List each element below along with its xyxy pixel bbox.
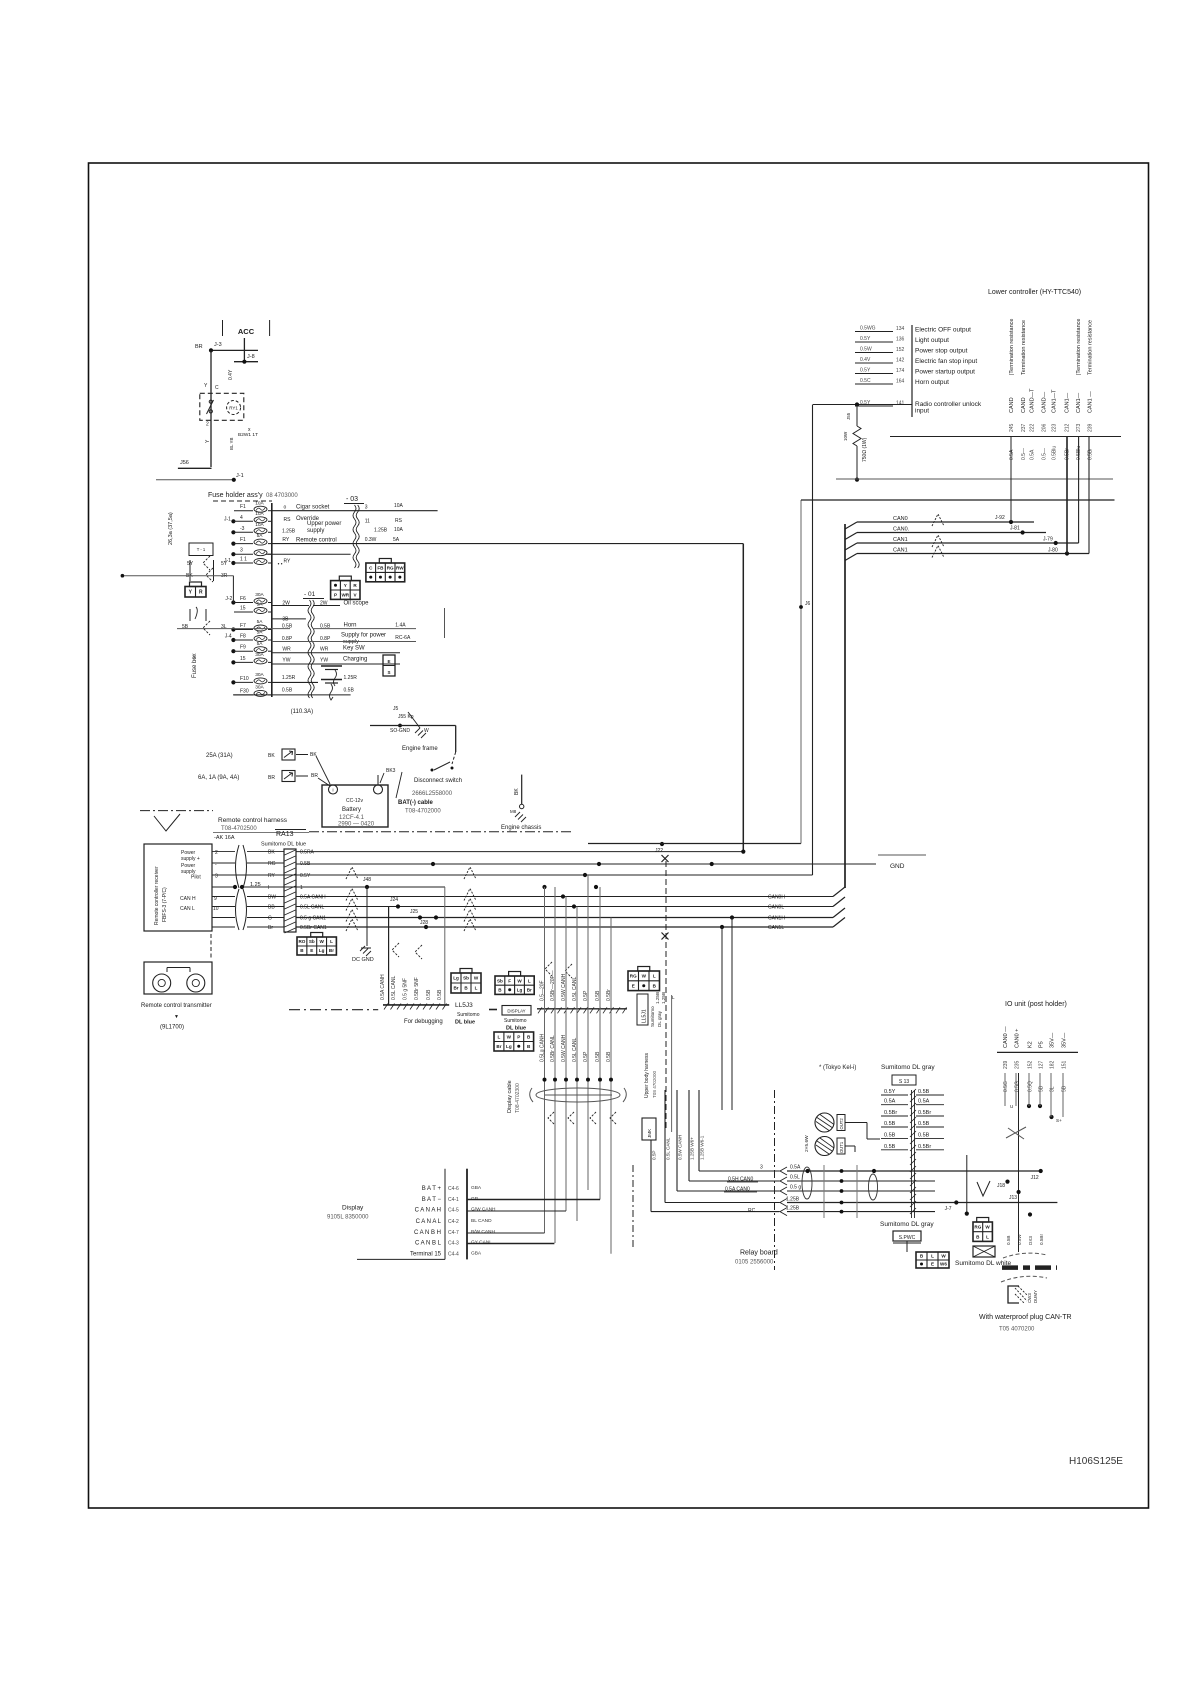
svg-text:RY: RY bbox=[268, 873, 276, 879]
svg-text:Br: Br bbox=[527, 988, 532, 993]
svg-text:M8: M8 bbox=[510, 809, 517, 814]
svg-text:J-79: J-79 bbox=[1043, 537, 1053, 543]
svg-text:Br: Br bbox=[329, 948, 334, 953]
svg-text:W6: W6 bbox=[940, 1262, 947, 1267]
svg-text:CAND: CAND bbox=[1021, 397, 1027, 413]
svg-text:0.5Br: 0.5Br bbox=[1088, 448, 1094, 460]
svg-text:CAN0L: CAN0L bbox=[768, 905, 784, 911]
svg-text:0.5B: 0.5B bbox=[344, 688, 355, 694]
svg-text:2: 2 bbox=[206, 422, 209, 428]
svg-text:P5: P5 bbox=[1039, 1041, 1045, 1048]
svg-text:Engine frame: Engine frame bbox=[402, 746, 438, 752]
svg-text:C4-3: C4-3 bbox=[448, 1241, 459, 1247]
svg-text:Light output: Light output bbox=[915, 337, 949, 344]
svg-text:P: P bbox=[517, 1034, 520, 1039]
svg-text:25A (31A): 25A (31A) bbox=[206, 753, 233, 759]
svg-text:10W: 10W bbox=[843, 431, 848, 441]
svg-text:H106S125E: H106S125E bbox=[1069, 1456, 1123, 1467]
svg-text:J-92: J-92 bbox=[995, 515, 1005, 521]
svg-text:BAT(-) cable: BAT(-) cable bbox=[398, 800, 434, 806]
svg-text:Terminal 15: Terminal 15 bbox=[410, 1252, 442, 1258]
svg-text:BK3: BK3 bbox=[386, 768, 396, 774]
svg-text:CAN0H: CAN0H bbox=[768, 895, 785, 901]
svg-text:supply +: supply + bbox=[181, 856, 200, 862]
svg-text:CAN1: CAN1 bbox=[893, 548, 908, 554]
svg-text:J-81: J-81 bbox=[1010, 526, 1020, 532]
svg-text:Sumitomo: Sumitomo bbox=[504, 1018, 527, 1024]
svg-text:J18: J18 bbox=[997, 1183, 1005, 1189]
svg-text:CAND: CAND bbox=[1009, 397, 1015, 413]
svg-text:L: L bbox=[528, 978, 531, 983]
svg-text:Remote control transmitter: Remote control transmitter bbox=[141, 1003, 212, 1009]
svg-text:0.5RA: 0.5RA bbox=[300, 850, 315, 856]
svg-text:182: 182 bbox=[1050, 1060, 1056, 1069]
svg-text:* (Tokyo Kel-i): * (Tokyo Kel-i) bbox=[819, 1065, 856, 1071]
svg-text:3: 3 bbox=[760, 1165, 763, 1171]
svg-text:127: 127 bbox=[1039, 1060, 1045, 1069]
svg-text:CAN1 —: CAN1 — bbox=[1088, 391, 1094, 413]
svg-text:Sb: Sb bbox=[309, 939, 315, 944]
svg-text:0.5Y: 0.5Y bbox=[860, 400, 871, 406]
svg-text:OUT2: OUT2 bbox=[839, 1118, 844, 1130]
svg-text:1.25B W6+: 1.25B W6+ bbox=[690, 1137, 695, 1160]
svg-text:0.5B: 0.5B bbox=[918, 1133, 930, 1139]
svg-text:CAN1H: CAN1H bbox=[768, 916, 785, 922]
svg-text:T08-4702300: T08-4702300 bbox=[515, 1083, 521, 1113]
svg-text:0.5B: 0.5B bbox=[426, 989, 432, 1000]
svg-text:S.PWC: S.PWC bbox=[899, 1235, 916, 1241]
svg-text:F6: F6 bbox=[240, 596, 246, 602]
svg-text:0.5Lg CANH: 0.5Lg CANH bbox=[540, 1034, 546, 1062]
svg-text:F10: F10 bbox=[240, 676, 249, 682]
svg-text:CAND—: CAND— bbox=[1042, 391, 1048, 413]
svg-text:- 03: - 03 bbox=[346, 496, 358, 503]
svg-text:5B: 5B bbox=[1062, 1085, 1068, 1092]
svg-text:GBA: GBA bbox=[471, 1185, 482, 1191]
svg-text:1.25R: 1.25R bbox=[344, 675, 358, 681]
svg-text:0.5A: 0.5A bbox=[918, 1099, 930, 1105]
svg-text:-AK 16A: -AK 16A bbox=[214, 835, 235, 841]
svg-text:Lg: Lg bbox=[319, 948, 325, 953]
svg-text:E: E bbox=[387, 659, 390, 664]
svg-text:o: o bbox=[284, 505, 287, 511]
svg-text:0.5—: 0.5— bbox=[1021, 448, 1027, 460]
svg-text:3L: 3L bbox=[1050, 1086, 1056, 1092]
svg-text:I: I bbox=[268, 885, 269, 891]
svg-text:Br: Br bbox=[496, 1044, 501, 1049]
svg-text:3: 3 bbox=[365, 505, 368, 511]
svg-text:0.5L CANL: 0.5L CANL bbox=[391, 976, 397, 1000]
svg-text:0.5P: 0.5P bbox=[652, 1151, 657, 1160]
svg-text:J28: J28 bbox=[420, 920, 428, 926]
svg-text:FBFS-3 (7-P/C): FBFS-3 (7-P/C) bbox=[162, 887, 168, 922]
svg-text:151: 151 bbox=[1062, 1060, 1068, 1069]
svg-text:RW: RW bbox=[396, 565, 404, 570]
svg-text:1.25B: 1.25B bbox=[655, 992, 660, 1004]
svg-text:223: 223 bbox=[1052, 423, 1058, 432]
svg-text:0.5WG: 0.5WG bbox=[860, 326, 876, 332]
svg-text:Remote control: Remote control bbox=[296, 538, 337, 544]
svg-text:J56: J56 bbox=[180, 460, 189, 466]
svg-text:CAN1L: CAN1L bbox=[768, 925, 784, 931]
svg-text:0.5A: 0.5A bbox=[790, 1165, 801, 1171]
svg-text:Lower controller (HY-TTC540): Lower controller (HY-TTC540) bbox=[988, 289, 1081, 296]
svg-text:F8: F8 bbox=[240, 634, 246, 640]
svg-text:(110.3A): (110.3A) bbox=[291, 709, 314, 715]
svg-text:Sb: Sb bbox=[463, 976, 469, 981]
svg-text:3L: 3L bbox=[221, 624, 227, 630]
svg-text:Horn: Horn bbox=[344, 623, 357, 629]
svg-text:K2: K2 bbox=[1028, 1041, 1034, 1048]
svg-text:0.5Blu: 0.5Blu bbox=[1052, 446, 1058, 460]
svg-text:L: L bbox=[653, 974, 656, 979]
svg-text:142: 142 bbox=[896, 358, 905, 364]
svg-text:- 01: - 01 bbox=[304, 591, 316, 598]
svg-text:0.5Br CANL: 0.5Br CANL bbox=[550, 1035, 556, 1062]
svg-text:Sb: Sb bbox=[497, 978, 503, 983]
svg-text:3: 3 bbox=[215, 874, 218, 880]
svg-text:RA13: RA13 bbox=[276, 831, 294, 838]
svg-text:2666L2558000: 2666L2558000 bbox=[412, 791, 453, 797]
svg-text:C4-2: C4-2 bbox=[448, 1219, 459, 1225]
svg-text:Oil scope: Oil scope bbox=[344, 601, 370, 607]
svg-text:C4-4: C4-4 bbox=[448, 1252, 459, 1258]
svg-text:0.5Q: 0.5Q bbox=[1028, 1081, 1034, 1092]
svg-text:1.25B W6-1: 1.25B W6-1 bbox=[700, 1135, 705, 1160]
svg-text:RG: RG bbox=[387, 565, 394, 570]
svg-text:J22: J22 bbox=[655, 848, 663, 854]
svg-text:OUT1: OUT1 bbox=[839, 1141, 844, 1153]
svg-text:With waterproof plug CAN-TR: With waterproof plug CAN-TR bbox=[979, 1314, 1072, 1321]
svg-text:0.5C: 0.5C bbox=[860, 378, 871, 384]
svg-text:T08-4702000: T08-4702000 bbox=[405, 809, 441, 815]
svg-text:Upper body harness: Upper body harness bbox=[644, 1052, 650, 1098]
svg-text:CAN1—: CAN1— bbox=[1076, 392, 1082, 413]
svg-text:5B: 5B bbox=[182, 624, 189, 630]
svg-text:CAN0.: CAN0. bbox=[893, 527, 910, 533]
svg-text:2×5.6W: 2×5.6W bbox=[804, 1135, 810, 1152]
svg-text:10A: 10A bbox=[394, 527, 404, 533]
svg-text:BL YB: BL YB bbox=[229, 437, 234, 450]
svg-text:F1: F1 bbox=[240, 504, 246, 510]
svg-text:BK: BK bbox=[514, 788, 520, 795]
svg-text:• •: • • bbox=[278, 562, 283, 568]
svg-text:L: L bbox=[931, 1254, 934, 1259]
svg-text:1.25B: 1.25B bbox=[661, 992, 666, 1004]
svg-text:0.5W: 0.5W bbox=[860, 347, 872, 353]
svg-text:|Termination resistance: |Termination resistance bbox=[1009, 319, 1015, 375]
svg-text:222: 222 bbox=[1030, 423, 1036, 432]
svg-text:0.5P: 0.5P bbox=[583, 990, 589, 1001]
svg-text:Sumitomo DL gray: Sumitomo DL gray bbox=[881, 1064, 935, 1071]
svg-text:0.5Br: 0.5Br bbox=[918, 1110, 931, 1116]
svg-text:W: W bbox=[474, 976, 479, 981]
svg-text:0.5Br 5NF: 0.5Br 5NF bbox=[414, 977, 420, 1000]
svg-text:6A, 1A (9A, 4A): 6A, 1A (9A, 4A) bbox=[198, 775, 239, 781]
svg-text:Sumitomo: Sumitomo bbox=[650, 1006, 655, 1027]
svg-text:134: 134 bbox=[896, 326, 905, 332]
svg-text:2: 2 bbox=[215, 850, 218, 856]
svg-text:BL CAND: BL CAND bbox=[471, 1218, 492, 1224]
svg-text:0.5L CANL: 0.5L CANL bbox=[300, 905, 324, 911]
svg-text:Electric fan stop input: Electric fan stop input bbox=[915, 358, 977, 365]
svg-text:T08-4702500: T08-4702500 bbox=[221, 826, 257, 832]
svg-text:10A: 10A bbox=[255, 511, 264, 517]
svg-text:Termination resistance: Termination resistance bbox=[1021, 320, 1027, 375]
svg-text:Lg: Lg bbox=[506, 1044, 512, 1049]
svg-text:RY: RY bbox=[284, 559, 292, 565]
svg-text:3: 3 bbox=[240, 548, 243, 554]
svg-text:0.5Br: 0.5Br bbox=[1039, 1234, 1044, 1245]
svg-text:RY1: RY1 bbox=[229, 406, 238, 411]
svg-text:L: L bbox=[986, 1234, 989, 1239]
svg-text:CAN H: CAN H bbox=[180, 896, 196, 902]
svg-text:0.5B: 0.5B bbox=[884, 1133, 896, 1139]
svg-text:C A N B L: C A N B L bbox=[415, 1241, 442, 1247]
svg-text:DC GND: DC GND bbox=[352, 957, 374, 963]
svg-text:0.5L: 0.5L bbox=[790, 1175, 800, 1181]
svg-text:0.4Y: 0.4Y bbox=[228, 369, 234, 380]
svg-text:J5: J5 bbox=[393, 706, 399, 712]
svg-text:0.5B: 0.5B bbox=[595, 990, 601, 1001]
svg-text:0.5W CANH: 0.5W CANH bbox=[561, 1034, 567, 1062]
svg-text:152: 152 bbox=[896, 347, 905, 353]
svg-text:0.5B: 0.5B bbox=[595, 1051, 601, 1062]
svg-text:0.5A: 0.5A bbox=[884, 1099, 896, 1105]
svg-text:input: input bbox=[915, 408, 929, 415]
svg-text:W: W bbox=[941, 1254, 946, 1259]
svg-text:CAN0 +: CAN0 + bbox=[1015, 1029, 1021, 1048]
svg-text:S+: S+ bbox=[1056, 1118, 1062, 1123]
svg-text:DX3: DX3 bbox=[1028, 1236, 1033, 1245]
svg-text:Electric OFF output: Electric OFF output bbox=[915, 327, 971, 334]
svg-text:BR: BR bbox=[311, 773, 318, 779]
svg-text:35V—: 35V— bbox=[1050, 1032, 1056, 1048]
svg-text:JMK: JMK bbox=[647, 1128, 652, 1138]
svg-text:30A: 30A bbox=[255, 592, 264, 598]
svg-text:IO unit (post holder): IO unit (post holder) bbox=[1005, 1001, 1067, 1008]
svg-text:Power stop output: Power stop output bbox=[915, 348, 968, 355]
svg-text:LL5J1: LL5J1 bbox=[642, 1009, 648, 1023]
svg-text:J-1: J-1 bbox=[224, 516, 231, 522]
svg-text:15: 15 bbox=[240, 606, 246, 612]
svg-text:0.5B: 0.5B bbox=[918, 1121, 930, 1127]
svg-text:239: 239 bbox=[1088, 423, 1094, 432]
svg-text:5A: 5A bbox=[257, 641, 264, 647]
svg-text:CAN0 —: CAN0 — bbox=[1003, 1026, 1009, 1048]
svg-text:RS: RS bbox=[284, 517, 292, 523]
svg-text:Display cable: Display cable bbox=[507, 1080, 513, 1113]
svg-text:RG: RG bbox=[974, 1225, 981, 1230]
svg-text:YW: YW bbox=[320, 658, 328, 664]
svg-text:RS: RS bbox=[395, 518, 403, 524]
svg-text:▼: ▼ bbox=[174, 1014, 179, 1020]
svg-text:For debugging: For debugging bbox=[404, 1019, 443, 1025]
svg-text:L: L bbox=[330, 939, 333, 944]
svg-text:B/W CANH: B/W CANH bbox=[471, 1229, 496, 1235]
svg-text:0.5B: 0.5B bbox=[1006, 1236, 1011, 1245]
svg-text:GBA: GBA bbox=[471, 1251, 482, 1257]
svg-text:U: U bbox=[1010, 1104, 1013, 1109]
svg-text:5A: 5A bbox=[257, 533, 264, 539]
svg-text:J-1: J-1 bbox=[236, 473, 244, 479]
svg-text:Sumitomo DL blue: Sumitomo DL blue bbox=[261, 842, 306, 848]
svg-text:Upper power: Upper power bbox=[307, 521, 341, 527]
svg-text:W: W bbox=[424, 728, 429, 734]
svg-text:RC: RC bbox=[748, 1208, 756, 1214]
svg-text:0105 2556000: 0105 2556000 bbox=[735, 1260, 774, 1266]
svg-text:1.25R: 1.25R bbox=[282, 675, 296, 681]
svg-text:DL blue: DL blue bbox=[506, 1026, 526, 1032]
svg-text:0.5G: 0.5G bbox=[1015, 1081, 1021, 1092]
svg-text:Disconnect switch: Disconnect switch bbox=[414, 778, 462, 784]
svg-text:212: 212 bbox=[1065, 423, 1071, 432]
svg-text:C A N A H: C A N A H bbox=[415, 1208, 441, 1214]
svg-text:0.5 g CAN1: 0.5 g CAN1 bbox=[300, 916, 326, 922]
svg-text:750Ω (1W): 750Ω (1W) bbox=[862, 437, 868, 462]
svg-text:BR: BR bbox=[268, 775, 275, 781]
svg-text:Power startup output: Power startup output bbox=[915, 369, 975, 376]
svg-text:Relay board: Relay board bbox=[740, 1250, 778, 1257]
svg-text:5Y: 5Y bbox=[221, 561, 228, 567]
svg-text:CAN L: CAN L bbox=[180, 906, 195, 912]
svg-text:Display: Display bbox=[342, 1205, 364, 1212]
svg-text:SO-GND: SO-GND bbox=[390, 728, 410, 734]
svg-text:E: E bbox=[632, 983, 635, 988]
svg-text:RG: RG bbox=[630, 974, 637, 979]
svg-text:Sumitomo DL gray: Sumitomo DL gray bbox=[880, 1221, 934, 1228]
svg-text:0.5B: 0.5B bbox=[884, 1121, 896, 1127]
svg-text:GY CANL: GY CANL bbox=[471, 1240, 492, 1246]
svg-text:F: F bbox=[508, 978, 511, 983]
svg-text:0.5B: 0.5B bbox=[606, 1051, 612, 1062]
svg-text:Supply for power: Supply for power bbox=[341, 633, 386, 639]
svg-text:RG: RG bbox=[268, 861, 276, 867]
svg-text:10A: 10A bbox=[394, 503, 404, 509]
svg-text:T08 4702000: T08 4702000 bbox=[652, 1070, 657, 1098]
svg-text:0.5Br: 0.5Br bbox=[606, 989, 612, 1001]
svg-text:0.5A CANH: 0.5A CANH bbox=[300, 895, 326, 901]
svg-text:BK: BK bbox=[268, 850, 275, 856]
svg-text:5A: 5A bbox=[257, 619, 264, 625]
svg-text:1.25B: 1.25B bbox=[786, 1206, 800, 1212]
svg-text:Remote control harness: Remote control harness bbox=[218, 817, 288, 824]
svg-text:J-4: J-4 bbox=[225, 634, 232, 640]
svg-text:1.25B: 1.25B bbox=[282, 529, 296, 535]
svg-text:0.5—: 0.5— bbox=[1042, 448, 1048, 460]
svg-text:11: 11 bbox=[365, 519, 370, 525]
svg-text:1.4A: 1.4A bbox=[395, 623, 406, 629]
svg-text:3B: 3B bbox=[282, 617, 289, 623]
svg-text:CW3: CW3 bbox=[1027, 1293, 1032, 1303]
svg-text:Key SW: Key SW bbox=[343, 646, 365, 652]
svg-text:supply: supply bbox=[307, 528, 324, 534]
svg-text:206: 206 bbox=[1042, 423, 1048, 432]
svg-text:B A T −: B A T − bbox=[422, 1197, 442, 1203]
svg-text:J-7: J-7 bbox=[945, 1206, 952, 1212]
svg-text:J12: J12 bbox=[1031, 1175, 1039, 1181]
svg-text:J6: J6 bbox=[805, 601, 811, 607]
svg-text:B A T +: B A T + bbox=[422, 1186, 442, 1192]
svg-text:YW: YW bbox=[282, 658, 290, 664]
svg-text:0.5Y: 0.5Y bbox=[860, 368, 871, 374]
svg-text:Lg: Lg bbox=[517, 988, 523, 993]
svg-text:DL blue: DL blue bbox=[455, 1020, 475, 1026]
svg-text:0.5B: 0.5B bbox=[918, 1089, 930, 1095]
svg-text:0.5W CANH: 0.5W CANH bbox=[561, 973, 567, 1001]
svg-text:10A: 10A bbox=[255, 500, 264, 506]
svg-text:RC-6A: RC-6A bbox=[395, 635, 411, 641]
svg-text:0.5L CANL: 0.5L CANL bbox=[572, 977, 578, 1001]
svg-text:0.5A: 0.5A bbox=[1030, 449, 1036, 460]
svg-text:Charging: Charging bbox=[343, 657, 367, 663]
svg-text:Horn output: Horn output bbox=[915, 379, 949, 386]
svg-text:5A: 5A bbox=[257, 602, 264, 608]
svg-text:BB: BB bbox=[268, 905, 275, 911]
svg-text:G: G bbox=[268, 916, 272, 922]
svg-text:Pilot: Pilot bbox=[191, 875, 201, 881]
svg-text:0.5P: 0.5P bbox=[583, 1051, 589, 1062]
svg-text:ACC: ACC bbox=[238, 327, 255, 336]
svg-text:2990 — 0420: 2990 — 0420 bbox=[338, 822, 375, 828]
svg-text:Br: Br bbox=[453, 986, 458, 991]
svg-text:J25: J25 bbox=[410, 909, 418, 915]
svg-text:245: 245 bbox=[1009, 423, 1015, 432]
svg-text:Remote controller receiver: Remote controller receiver bbox=[154, 866, 160, 925]
svg-text:239: 239 bbox=[1003, 1060, 1009, 1069]
svg-text:(9L1700): (9L1700) bbox=[160, 1025, 184, 1031]
svg-text:0.5Y: 0.5Y bbox=[860, 336, 871, 342]
svg-text:C: C bbox=[215, 385, 219, 391]
svg-text:W: W bbox=[517, 978, 522, 983]
svg-text:10A: 10A bbox=[255, 522, 264, 528]
svg-text:15: 15 bbox=[240, 656, 246, 662]
svg-text:0.5W: 0.5W bbox=[1017, 1234, 1022, 1245]
svg-text:Termination resistance: Termination resistance bbox=[1088, 320, 1094, 375]
svg-text:BK: BK bbox=[268, 753, 275, 759]
svg-text:5A: 5A bbox=[393, 537, 400, 543]
svg-text:F30: F30 bbox=[240, 688, 249, 694]
svg-text:CAN1—T: CAN1—T bbox=[1052, 389, 1058, 413]
svg-text:0.5Y: 0.5Y bbox=[300, 873, 311, 879]
svg-text:0.5W CANH: 0.5W CANH bbox=[678, 1135, 683, 1160]
svg-text:T - 1: T - 1 bbox=[197, 547, 206, 552]
svg-text:30A: 30A bbox=[255, 672, 264, 678]
svg-text:0.5Y: 0.5Y bbox=[884, 1089, 896, 1095]
svg-text:P: P bbox=[334, 592, 337, 597]
svg-text:L: L bbox=[672, 995, 675, 1000]
svg-text:141: 141 bbox=[896, 401, 905, 407]
svg-text:0.5L CANL: 0.5L CANL bbox=[666, 1137, 671, 1160]
svg-text:4: 4 bbox=[240, 515, 243, 521]
svg-text:Y: Y bbox=[344, 583, 347, 588]
svg-text:1: 1 bbox=[300, 885, 303, 891]
svg-text:Br: Br bbox=[268, 925, 273, 931]
svg-text:1.25B: 1.25B bbox=[786, 1197, 800, 1203]
svg-text:CAN0: CAN0 bbox=[893, 516, 908, 522]
svg-text:0.5L CANL: 0.5L CANL bbox=[572, 1038, 578, 1062]
svg-text:J13: J13 bbox=[1009, 1195, 1017, 1201]
svg-text:J-8: J-8 bbox=[247, 354, 255, 360]
svg-text:T05 4070200: T05 4070200 bbox=[999, 1327, 1035, 1333]
svg-text:CAN1: CAN1 bbox=[893, 537, 908, 543]
svg-text:152: 152 bbox=[1028, 1060, 1034, 1069]
svg-text:Engine chassis: Engine chassis bbox=[501, 825, 541, 831]
svg-text:WR: WR bbox=[341, 592, 349, 597]
svg-text:C A N B H: C A N B H bbox=[414, 1230, 441, 1236]
svg-text:0.4V: 0.4V bbox=[860, 357, 871, 363]
svg-text:35V—: 35V— bbox=[1062, 1032, 1068, 1048]
